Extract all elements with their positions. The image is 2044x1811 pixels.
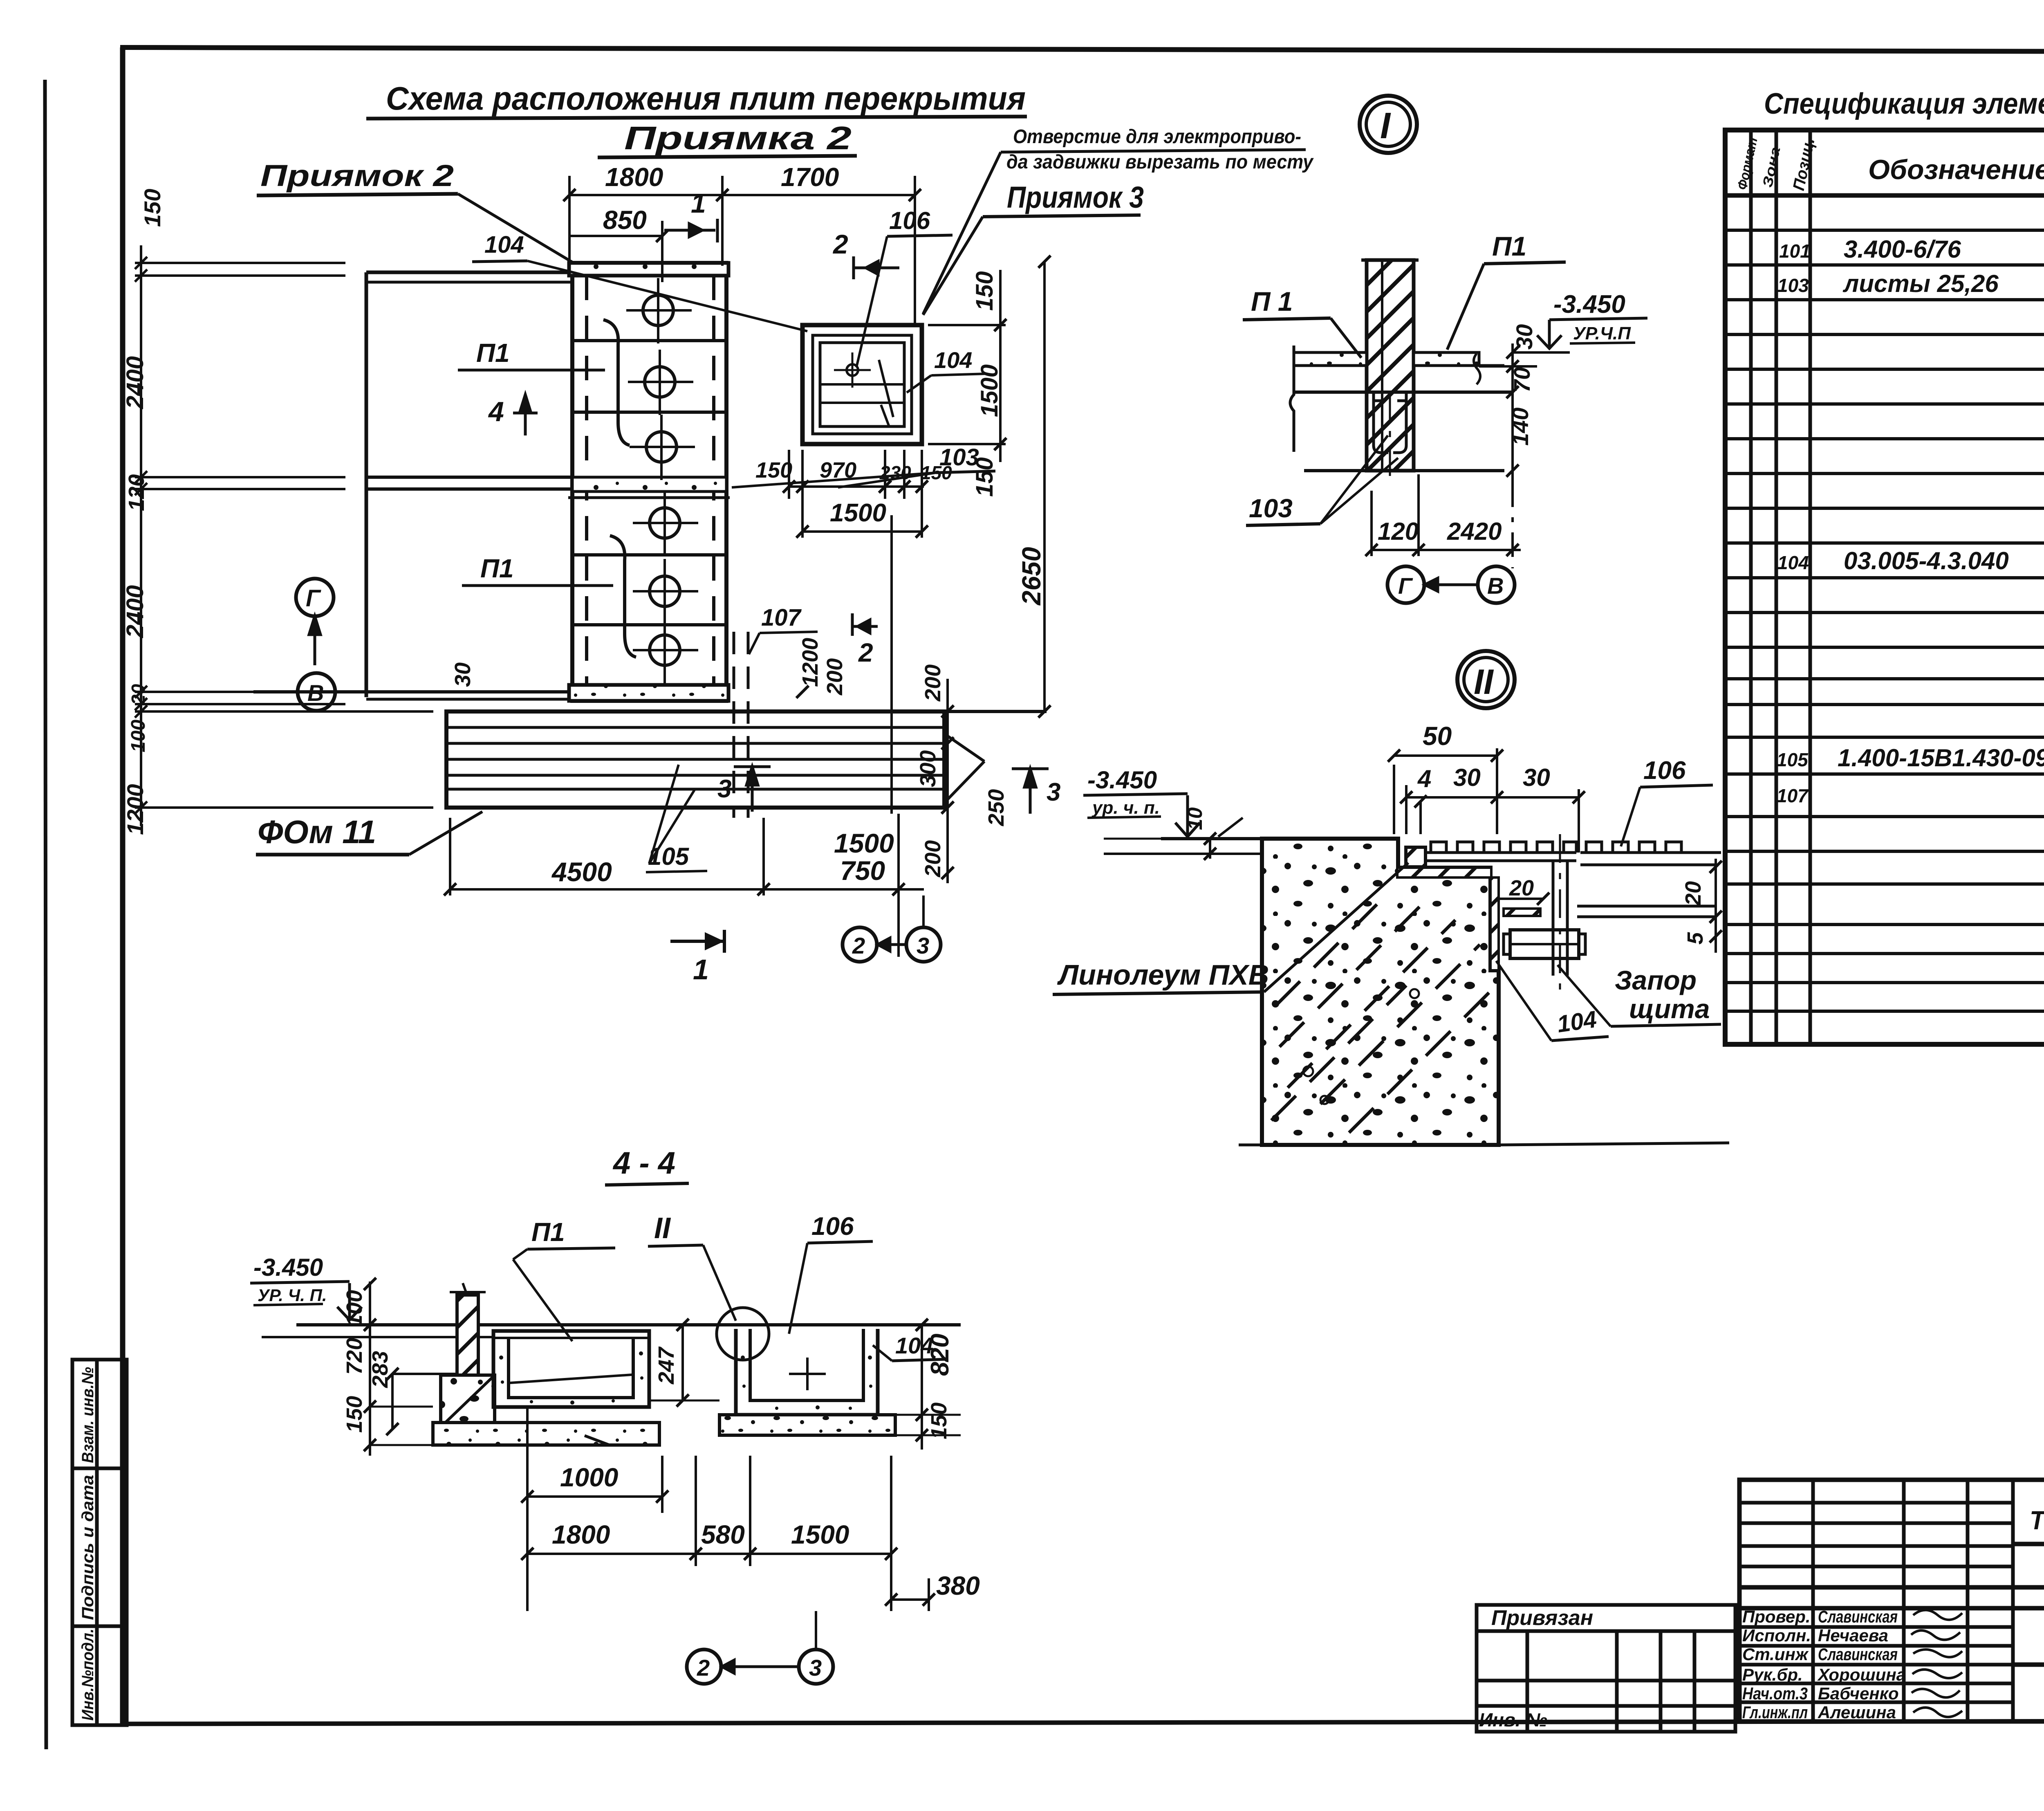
concrete block [1262, 839, 1499, 1145]
wall footing block [441, 1375, 495, 1429]
svg-text:30: 30 [1523, 764, 1550, 791]
svg-text:П1: П1 [1492, 231, 1526, 261]
section mark 2 top [832, 229, 848, 259]
svg-text:150: 150 [921, 462, 952, 483]
pit hole circle [847, 364, 858, 376]
svg-text:1800: 1800 [552, 1520, 610, 1549]
svg-text:720: 720 [342, 1338, 367, 1375]
svg-text:970: 970 [820, 458, 856, 482]
node I title circle [1360, 96, 1417, 153]
svg-text:Нач.от.3: Нач.от.3 [1742, 1684, 1808, 1703]
short hatched strip right of leg [1504, 909, 1540, 916]
svg-text:230: 230 [879, 462, 911, 483]
svg-text:105: 105 [1777, 749, 1809, 770]
svg-text:1.400-15В1.430-09: 1.400-15В1.430-09 [1838, 744, 2044, 772]
left dims [364, 1278, 457, 1456]
spec table body texts [1777, 203, 2044, 883]
svg-text:140: 140 [1507, 408, 1533, 446]
svg-text:101: 101 [1779, 240, 1811, 262]
leader from Приямок 2 to plate strip [458, 194, 591, 273]
svg-text:В: В [1487, 573, 1504, 599]
svg-text:1500: 1500 [830, 499, 886, 527]
svg-text:4 - 4: 4 - 4 [612, 1146, 675, 1180]
svg-text:В: В [307, 680, 324, 706]
svg-text:107: 107 [761, 604, 802, 631]
small void circles in concrete [1303, 989, 1419, 1104]
svg-text:104: 104 [1777, 552, 1809, 573]
section title 4-4 [612, 1146, 675, 1180]
strip top concrete band [569, 263, 728, 276]
label 106 [1643, 756, 1686, 785]
П1 bracket curves [603, 320, 630, 445]
svg-text:ТП А-Ⅱ-600-338.86 -КЖ-альбо: ТП А-Ⅱ-600-338.86 -КЖ-альбом Ⅰ вып. 1 [2030, 1506, 2044, 1535]
svg-text:106: 106 [889, 207, 930, 234]
svg-text:250: 250 [984, 789, 1009, 826]
plate strip outer [572, 263, 726, 701]
svg-text:Приямок 3: Приямок 3 [1007, 180, 1144, 214]
label 104 at pit right [934, 347, 972, 373]
right dim chain [1479, 343, 1537, 482]
svg-text:106: 106 [811, 1212, 854, 1241]
svg-text:1500: 1500 [976, 364, 1003, 417]
axis circle В [298, 673, 335, 711]
left channel trough [493, 1331, 649, 1407]
linoleum hatched vertical leg [1490, 877, 1499, 970]
right dims 820 150 [878, 1319, 961, 1450]
svg-text:Хорошина: Хорошина [1817, 1665, 1906, 1684]
П1 label right [1492, 231, 1526, 261]
svg-text:3.400-6/76: 3.400-6/76 [1844, 236, 1961, 263]
right channel trough [736, 1329, 878, 1415]
svg-text:Отверстие для электроприво-: Отверстие для электроприво- [1013, 126, 1301, 148]
svg-text:300: 300 [916, 750, 940, 787]
room 120 band [366, 476, 572, 479]
svg-text:03.005-4.3.040: 03.005-4.3.040 [1844, 547, 2009, 574]
bottom dims 120 2420 [1365, 474, 1521, 556]
shelf lines right of bolt [1577, 905, 1716, 908]
svg-text:30: 30 [1511, 324, 1537, 350]
svg-text:104: 104 [484, 231, 524, 258]
svg-text:I: I [1380, 105, 1391, 146]
svg-text:2420: 2420 [1447, 518, 1502, 545]
svg-text:Линолеум ПХВ: Линолеум ПХВ [1057, 959, 1269, 991]
axis circle Г [296, 579, 334, 616]
svg-text:50: 50 [1423, 721, 1452, 751]
label 107 [761, 604, 802, 631]
svg-text:Запор: Запор [1615, 965, 1697, 995]
svg-text:150: 150 [755, 458, 792, 482]
bottom axis circles 2 and 3 [843, 927, 877, 962]
section 3 marks [717, 775, 731, 803]
svg-text:Подпись и дата: Подпись и дата [79, 1475, 97, 1620]
label Запор щита [1615, 965, 1710, 1024]
svg-text:2400: 2400 [122, 356, 148, 409]
svg-text:1200: 1200 [122, 784, 148, 835]
svg-text:200: 200 [823, 658, 847, 696]
svg-text:103: 103 [1777, 275, 1809, 296]
axis circle В [1478, 566, 1515, 603]
pit inner diagonals [879, 360, 893, 417]
section mark 2 lower [858, 638, 873, 667]
black corner anchor angle [1406, 847, 1425, 867]
svg-text:150: 150 [139, 189, 165, 227]
floor left edge with break [1290, 346, 1294, 452]
svg-text:Рук.бр.: Рук.бр. [1742, 1665, 1803, 1684]
room bottom double line [253, 690, 572, 693]
svg-text:-3.450: -3.450 [1087, 766, 1157, 794]
linoleum hatched ledge strip [1397, 868, 1491, 877]
label Линолеум ПХВ [1057, 959, 1269, 991]
level mark [253, 1254, 323, 1281]
base slab under channel [433, 1423, 659, 1445]
label П1 [531, 1217, 565, 1247]
svg-text:Исполн.: Исполн. [1742, 1626, 1811, 1645]
svg-text:1500: 1500 [834, 828, 894, 858]
svg-text:20: 20 [1681, 881, 1706, 906]
level mark -3.450 [1087, 766, 1157, 794]
svg-text:30: 30 [1453, 764, 1481, 791]
svg-text:2650: 2650 [1017, 547, 1046, 606]
right extension ticks near slab [796, 679, 984, 883]
svg-text:2: 2 [858, 638, 873, 667]
svg-text:1500: 1500 [791, 1520, 849, 1549]
svg-text:Спецификация элементов монол: Спецификация элементов монолитной констр… [1764, 88, 2044, 120]
floor screed band left [1294, 352, 1367, 366]
svg-text:II: II [1474, 662, 1494, 702]
svg-text:П1: П1 [476, 338, 510, 368]
svg-text:Провер.: Провер. [1742, 1607, 1811, 1626]
dims 4 30 30 [1400, 785, 1585, 853]
svg-text:2400: 2400 [122, 585, 148, 638]
svg-text:1000: 1000 [560, 1463, 618, 1492]
axis circles 2 and 3 [687, 1649, 721, 1684]
label 104 top [484, 231, 524, 258]
strip bottom concrete band [569, 685, 728, 701]
wall top stub [1361, 258, 1419, 262]
svg-text:Гл.инж.пл: Гл.инж.пл [1742, 1703, 1808, 1722]
header bottom [1725, 193, 2044, 198]
label 103 [939, 444, 979, 471]
svg-text:ур. ч. п.: ур. ч. п. [1091, 798, 1160, 818]
right break squiggle [1474, 354, 1480, 384]
svg-text:П1: П1 [531, 1217, 565, 1247]
svg-text:Обозначение: Обозначение [1868, 154, 2044, 185]
svg-text:Схема расположения плит перек: Схема расположения плит перекрытия [386, 80, 1026, 117]
П1 label upper [476, 338, 510, 368]
dim 247 between channels [649, 1319, 719, 1407]
svg-text:Привязан: Привязан [1491, 1606, 1593, 1630]
axis line to circles [1511, 482, 1514, 568]
svg-text:2: 2 [832, 229, 848, 259]
svg-text:1: 1 [693, 954, 709, 985]
svg-text:100: 100 [128, 720, 149, 752]
left room rectangle [366, 271, 572, 274]
section mark 4 upper [488, 396, 504, 427]
svg-text:ФОм 11: ФОм 11 [258, 814, 376, 850]
svg-text:100: 100 [342, 1290, 367, 1327]
label 106 [811, 1212, 854, 1241]
svg-text:200: 200 [921, 664, 945, 702]
embedded channel below wall [1374, 392, 1388, 453]
speckles in right channel walls [741, 1355, 872, 1410]
svg-text:УР. Ч. П.: УР. Ч. П. [258, 1286, 327, 1305]
level mark -3.450 [1553, 290, 1625, 319]
label II [654, 1212, 671, 1245]
label 106 top [889, 207, 930, 234]
svg-text:1700: 1700 [781, 162, 839, 192]
floor slab lines [1294, 364, 1367, 367]
svg-text:3: 3 [717, 775, 731, 803]
svg-text:150: 150 [971, 457, 998, 497]
svg-text:820: 820 [926, 1334, 954, 1376]
svg-text:Алешина: Алешина [1818, 1703, 1896, 1722]
dashed inner verticals [585, 276, 588, 685]
main stamp grid [1739, 1480, 2044, 1721]
svg-text:3: 3 [809, 1655, 822, 1681]
label 104 [1555, 1006, 1598, 1038]
svg-text:4500: 4500 [551, 857, 612, 887]
plate division lines [572, 339, 726, 342]
svg-text:20: 20 [128, 684, 149, 705]
svg-text:П 1: П 1 [1251, 286, 1293, 316]
axis circle Г [1387, 566, 1424, 603]
svg-text:247: 247 [654, 1346, 679, 1385]
svg-text:-3.450: -3.450 [253, 1254, 323, 1281]
svg-text:1200: 1200 [798, 638, 823, 687]
dim 850 [569, 221, 668, 282]
svg-text:Приямок 2: Приямок 2 [260, 159, 454, 193]
slant fill line inside left channel bottom [510, 1375, 632, 1383]
bolt rod vertical [1552, 861, 1555, 976]
foundation slab ФОм11 [446, 711, 944, 808]
svg-text:5: 5 [1683, 932, 1708, 945]
svg-text:Ст.инж: Ст.инж [1742, 1645, 1809, 1664]
svg-text:Славинская: Славинская [1818, 1645, 1898, 1664]
svg-text:1: 1 [691, 188, 706, 218]
bottom section mark 1 [693, 954, 709, 985]
svg-text:-3.450: -3.450 [1553, 290, 1625, 319]
ribbed plate right [1580, 842, 1721, 865]
speckles in channel walls [499, 1351, 643, 1405]
svg-text:70: 70 [1509, 367, 1535, 393]
svg-text:2: 2 [852, 933, 865, 958]
bottom axis line [1239, 1144, 1262, 1147]
left dim chain [135, 245, 433, 826]
svg-text:120: 120 [124, 474, 149, 511]
svg-text:10: 10 [1183, 807, 1206, 830]
section mark 1 top [691, 188, 706, 218]
right dims 20 and 5 [1710, 859, 1722, 953]
ground line [296, 1323, 961, 1326]
svg-text:120: 120 [1378, 518, 1419, 545]
П1 label lower [480, 554, 514, 583]
svg-text:Бабченко: Бабченко [1818, 1684, 1899, 1703]
label Приямок 2 [260, 159, 454, 193]
node circle on right channel wall [717, 1308, 769, 1360]
svg-text:3: 3 [917, 933, 929, 958]
floor line left of block [1161, 837, 1262, 840]
Отверстие text block [1006, 126, 1314, 173]
svg-text:4: 4 [1417, 765, 1431, 792]
pipe 107 dashed [733, 632, 735, 818]
ribbed plate left [1425, 842, 1576, 861]
right side dims of plan [928, 256, 1051, 718]
svg-text:750: 750 [840, 855, 885, 886]
svg-text:3: 3 [1047, 778, 1060, 806]
bolt plate assembly [1510, 930, 1579, 958]
dim 1200 / 200 right of pipe [798, 638, 847, 696]
anchor circles [626, 278, 698, 683]
left wall hatched [457, 1295, 478, 1375]
verticals [1749, 130, 1753, 1044]
П1 label left [1251, 286, 1293, 316]
spec table header texts [1735, 136, 2044, 192]
dim 10 [1104, 833, 1216, 860]
svg-text:106: 106 [1643, 756, 1686, 785]
pit bottom dims 150 970 230 150 [783, 450, 928, 499]
node II title circle [1457, 651, 1515, 708]
floor screed band right [1414, 352, 1479, 366]
svg-text:УР.Ч.П: УР.Ч.П [1573, 323, 1631, 343]
svg-text:2: 2 [697, 1655, 710, 1681]
signature rows [1742, 1607, 1962, 1722]
row lines [1725, 229, 2044, 232]
signature squiggles [1911, 1610, 1962, 1717]
svg-text:200: 200 [921, 840, 945, 877]
svg-text:30: 30 [450, 662, 475, 687]
svg-text:4: 4 [488, 396, 504, 427]
svg-text:Г: Г [306, 585, 321, 612]
svg-text:150: 150 [342, 1396, 367, 1433]
svg-text:107: 107 [1777, 785, 1809, 806]
svg-text:103: 103 [1249, 494, 1293, 523]
left small table Привязан [1477, 1605, 1735, 1732]
diagonal dashed reinforcement lines in block [1271, 891, 1492, 1133]
svg-text:листы 25,26: листы 25,26 [1842, 270, 1999, 297]
svg-text:II: II [654, 1212, 671, 1245]
dim 20 inside [1443, 895, 1513, 916]
svg-text:Нечаева: Нечаева [1818, 1626, 1888, 1645]
center cross in right channel [789, 1373, 826, 1375]
svg-text:щита: щита [1629, 994, 1710, 1024]
svg-text:П1: П1 [480, 554, 514, 583]
svg-text:20: 20 [1509, 876, 1534, 900]
ФОм 11 label [258, 814, 376, 850]
svg-text:150: 150 [971, 271, 998, 311]
svg-text:Приямка 2: Приямка 2 [624, 120, 852, 156]
svg-text:150: 150 [927, 1403, 951, 1439]
top dim 1800/1700 [563, 176, 921, 323]
spec table grid [1725, 52, 2044, 1044]
label 105 [648, 843, 690, 870]
svg-text:104: 104 [934, 347, 972, 373]
svg-text:580: 580 [701, 1520, 745, 1549]
dim 50 [1388, 748, 1503, 834]
svg-text:283: 283 [368, 1351, 392, 1388]
sheet left edge [45, 80, 46, 1749]
pit square Приямок 3 outer [802, 325, 922, 444]
label 104 right [895, 1333, 933, 1358]
wall hatched [1367, 260, 1414, 471]
bottom dims [521, 1407, 935, 1611]
pit dim 1500 [801, 454, 804, 538]
svg-text:да задвижки вырезать по месту: да задвижки вырезать по месту [1006, 151, 1314, 173]
svg-text:850: 850 [603, 205, 647, 235]
svg-text:104: 104 [1555, 1006, 1598, 1038]
svg-text:Инв. №: Инв. № [1479, 1709, 1547, 1730]
svg-text:380: 380 [936, 1571, 980, 1600]
svg-text:Инв.№подл.: Инв.№подл. [79, 1629, 97, 1721]
svg-text:1800: 1800 [605, 162, 663, 192]
svg-text:Славинская: Славинская [1818, 1607, 1898, 1626]
svg-text:Г: Г [1398, 573, 1413, 599]
svg-text:Взам. инв.№: Взам. инв.№ [79, 1367, 97, 1463]
right channel footing [719, 1415, 895, 1435]
103 label [1249, 494, 1293, 523]
103 joint band across strip [572, 477, 726, 491]
dim 4500 etc [444, 814, 924, 957]
